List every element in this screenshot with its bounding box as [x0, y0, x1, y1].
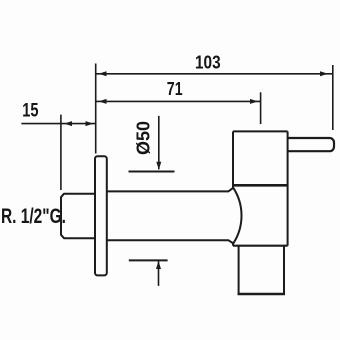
valve body top edge: [233, 130, 288, 132]
spout left edge: [238, 246, 240, 294]
valve body bottom edge: [233, 245, 288, 247]
svg-text:Ø50: Ø50: [134, 121, 154, 155]
dim Ø50 upper arrow line: [158, 116, 160, 169]
svg-text:15: 15: [22, 99, 38, 120]
dim Ø50 upper reference line: [129, 171, 175, 173]
wall flange (escutcheon): [95, 156, 107, 275]
valve body joint line: [233, 184, 288, 187]
lever handle: [288, 138, 334, 151]
extension line (wall face, left of 103/71/15 dims): [95, 64, 97, 154]
pipe/body intersection arc: [233, 188, 241, 244]
valve body left edge upper: [232, 131, 234, 188]
dim Ø50 lower reference line: [129, 259, 168, 261]
spout right edge: [283, 246, 285, 294]
threaded nipple (inlet): [61, 194, 96, 239]
extension line (faucet axis, right of 71 dim): [260, 92, 262, 124]
supply pipe top line: [107, 188, 234, 192]
valve body right edge: [287, 131, 289, 245]
supply pipe bottom line: [107, 240, 234, 243]
svg-text:103: 103: [195, 52, 221, 73]
dimension line 71: [96, 100, 261, 102]
dim Ø50 lower arrow line: [158, 261, 160, 286]
svg-text:71: 71: [167, 79, 183, 99]
dimension line 103: [96, 73, 333, 75]
extension line (right end of 103 dim): [332, 65, 334, 130]
extension line (nipple end, left of 15 dim): [60, 115, 62, 190]
dimension line 15: [21, 123, 95, 125]
spout bottom edge: [238, 293, 286, 296]
valve body left edge lower: [232, 243, 234, 245]
svg-text:R. 1/2"G.: R. 1/2"G.: [1, 203, 66, 227]
